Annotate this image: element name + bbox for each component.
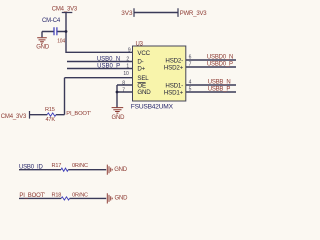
svg-text:U3: U3	[136, 41, 144, 47]
svg-text:7: 7	[189, 62, 192, 68]
svg-text:GND: GND	[36, 45, 50, 51]
svg-text:9: 9	[128, 48, 131, 54]
svg-text:0R/NC: 0R/NC	[72, 163, 88, 169]
svg-text:GND: GND	[114, 167, 128, 173]
svg-text:D+: D+	[137, 66, 145, 73]
svg-text:47K: 47K	[46, 117, 56, 123]
svg-text:USBB_P: USBB_P	[208, 87, 231, 93]
svg-text:CM4_3V3: CM4_3V3	[52, 7, 78, 13]
svg-text:D-: D-	[137, 59, 143, 66]
svg-text:5: 5	[189, 87, 192, 93]
svg-text:10: 10	[123, 71, 129, 77]
svg-text:R15: R15	[45, 107, 55, 113]
svg-text:HSD2-: HSD2-	[165, 57, 183, 64]
svg-text:GND: GND	[137, 89, 151, 96]
svg-text:HSD2+: HSD2+	[164, 64, 184, 71]
svg-text:4: 4	[189, 80, 192, 86]
svg-text:1: 1	[126, 64, 129, 70]
svg-text:3V3: 3V3	[121, 10, 133, 17]
svg-text:USBD0_P: USBD0_P	[207, 62, 233, 68]
svg-text:R17: R17	[52, 163, 62, 169]
svg-text:USB0_P: USB0_P	[97, 63, 120, 69]
svg-text:6: 6	[189, 55, 192, 61]
svg-text:GND: GND	[115, 196, 129, 202]
svg-text:HSD1-: HSD1-	[165, 82, 183, 89]
svg-text:FSUSB42UMX: FSUSB42UMX	[131, 104, 174, 111]
svg-text:8: 8	[122, 81, 125, 87]
svg-text:USBD0_N: USBD0_N	[207, 55, 233, 61]
svg-text:PI_BOOT’: PI_BOOT’	[19, 193, 45, 199]
svg-text:PI_BOOT’: PI_BOOT’	[66, 111, 91, 117]
svg-text:SEL: SEL	[137, 75, 149, 82]
svg-text:7: 7	[122, 87, 125, 93]
svg-text:HSD1+: HSD1+	[164, 89, 184, 96]
svg-text:R18: R18	[52, 193, 62, 199]
svg-text:USBB_N: USBB_N	[208, 80, 231, 86]
svg-text:0R/NC: 0R/NC	[72, 193, 88, 199]
svg-text:USB0_N: USB0_N	[97, 56, 120, 62]
svg-text:104: 104	[57, 39, 65, 45]
svg-text:VCC: VCC	[137, 50, 150, 57]
svg-text:CM-C4: CM-C4	[42, 18, 61, 24]
svg-text:CM4_3V3: CM4_3V3	[1, 114, 27, 120]
svg-text:2: 2	[126, 57, 129, 63]
svg-text:GND: GND	[112, 115, 126, 121]
svg-text:PWR_3V3: PWR_3V3	[180, 11, 207, 17]
svg-text:USB0_ID: USB0_ID	[19, 165, 43, 171]
